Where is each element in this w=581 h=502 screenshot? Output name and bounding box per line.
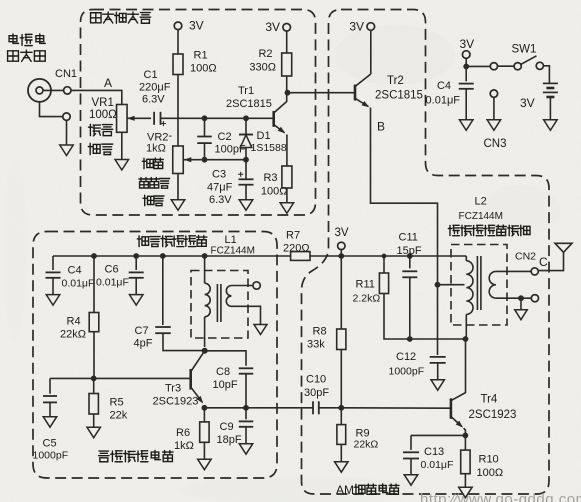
svg-text:6.3V: 6.3V (209, 194, 232, 206)
wire tank bottom rail (410, 338, 466, 340)
svg-text:SW1: SW1 (512, 44, 537, 56)
label VR2 1k (146, 130, 173, 155)
capacitor C13 (403, 435, 465, 474)
ground R9 (335, 462, 349, 473)
node switch feed junction (463, 64, 469, 70)
potentiometer VR1 (117, 105, 151, 133)
resistor R6 (200, 408, 209, 459)
svg-text:C9: C9 (220, 421, 234, 433)
svg-text:1kΩ: 1kΩ (146, 143, 166, 155)
label C1 220uF 6.3V (139, 69, 171, 106)
node CN1 pin circle (55, 68, 77, 94)
label 高频振荡电路 (99, 450, 174, 462)
ground VR1 (115, 132, 129, 170)
capacitor C10 (313, 401, 341, 414)
svg-text:R3: R3 (263, 172, 277, 184)
node B label (377, 120, 385, 134)
svg-text:-: - (169, 130, 173, 142)
svg-text:Tr4: Tr4 (481, 394, 498, 406)
base rail wire (50, 377, 190, 379)
label C12 1000pF (389, 351, 425, 378)
svg-text:220μF: 220μF (139, 82, 171, 94)
svg-text:C: C (539, 255, 548, 269)
svg-text:0.01μF: 0.01μF (426, 95, 461, 107)
svg-text:100Ω: 100Ω (261, 186, 288, 198)
label L2 FCZ144M (459, 196, 503, 223)
label 与振荡频率同步 (448, 225, 530, 236)
resistor R7 (283, 230, 310, 261)
resistor R4 (89, 256, 99, 378)
svg-text:R6: R6 (176, 427, 190, 439)
node L1 secondary tap terminal (253, 282, 260, 289)
ground L2 secondary (515, 298, 528, 320)
label VR1 振幅调整 (88, 124, 112, 154)
label C2 100pF (215, 131, 246, 156)
svg-text:220Ω: 220Ω (283, 243, 310, 255)
node L2 secondary ground junction (518, 295, 524, 301)
label R9 22k (354, 428, 379, 451)
capacitor C1 (coupling, polarized) (154, 112, 166, 126)
svg-text:18pF: 18pF (217, 434, 242, 446)
label C6 0.01uF (96, 264, 129, 289)
node Tr3 emitter (202, 405, 208, 411)
antenna (539, 243, 573, 270)
svg-text:0.01μF: 0.01μF (421, 459, 454, 471)
resistor R9 (337, 408, 346, 462)
svg-text:2SC1815: 2SC1815 (375, 90, 423, 102)
connector CN3 (484, 90, 507, 150)
inductor L2 primary winding (466, 256, 473, 339)
ground VR2 (171, 174, 185, 211)
svg-text:330Ω: 330Ω (249, 62, 276, 74)
node R4 top (91, 253, 97, 259)
wire Tr2 emitter down to tank tap and C12 (371, 108, 438, 356)
svg-text:100Ω: 100Ω (89, 109, 117, 121)
capacitor C9 (239, 408, 254, 444)
svg-text:A: A (104, 76, 112, 90)
resistor R10 (461, 435, 470, 487)
dashed box modulator block (Tr2 + AM section) (302, 10, 550, 495)
svg-text:2.2kΩ: 2.2kΩ (353, 293, 381, 305)
connector CN1 RCA jack (28, 79, 63, 117)
svg-text:FCZ144M: FCZ144M (459, 211, 503, 222)
node tank bottom / Tr4 collector (463, 336, 469, 342)
dashed box L1 (191, 271, 248, 339)
svg-text:C4: C4 (437, 80, 451, 92)
svg-text:R1: R1 (194, 50, 208, 62)
capacitor C4 oscillator (46, 256, 61, 295)
node L1/C7/C8/collector junction (202, 348, 208, 354)
label AM调制电路 (336, 483, 399, 497)
svg-text:C5: C5 (43, 438, 57, 450)
capacitor C3 (polarized) (238, 160, 253, 200)
svg-text:33k: 33k (307, 339, 325, 351)
wire Tr1 emitter to R3 (286, 135, 288, 167)
svg-text:2SC1923: 2SC1923 (469, 409, 517, 421)
svg-text:VR1: VR1 (92, 97, 114, 109)
label C3 47uF 6.3V (207, 169, 233, 207)
svg-text:100Ω: 100Ω (477, 467, 504, 479)
node D1 top junction (243, 115, 249, 121)
svg-text:2SC1815: 2SC1815 (226, 98, 272, 110)
ground input sleeve (60, 120, 74, 155)
svg-text:22kΩ: 22kΩ (60, 329, 86, 341)
label R8 33k (307, 326, 327, 351)
ground R6 (198, 459, 212, 470)
inductor L1 secondary winding (226, 286, 260, 325)
node C11 top (407, 253, 413, 259)
svg-text:C8: C8 (216, 366, 230, 378)
emitter rail wire (204, 407, 313, 409)
svg-text:C12: C12 (396, 351, 416, 363)
svg-text:15pF: 15pF (397, 245, 422, 257)
capacitor C2 (197, 118, 212, 159)
inductor L1 primary winding (205, 256, 211, 347)
node C10/R8/R9/base junction (338, 405, 344, 411)
supply 3V terminal for R2 (265, 20, 290, 53)
svg-text:1kΩ: 1kΩ (174, 440, 194, 452)
svg-text:C13: C13 (424, 446, 444, 458)
ground C3 (239, 200, 253, 211)
svg-text:1S1588: 1S1588 (251, 142, 287, 154)
node R4/R5 junction (91, 376, 97, 382)
svg-text:http:∕∕www.qo-gddq.com: http:∕∕www.qo-gddq.com (420, 491, 581, 502)
svg-text:2SC1923: 2SC1923 (153, 396, 199, 408)
node C6 top (133, 253, 139, 259)
capacitor C7 (155, 256, 202, 351)
svg-text:R8: R8 (313, 326, 327, 338)
label R11 2.2k (353, 279, 381, 305)
dashed box HF oscillator block (33, 232, 277, 479)
wire RCA center to CN1 (43, 89, 64, 91)
svg-text:1000pF: 1000pF (33, 450, 69, 462)
label R5 22k (110, 397, 128, 422)
wire oscillator supply rail (53, 255, 341, 257)
resistor R5 (89, 378, 98, 427)
transistor Tr1 2SC1815 (226, 85, 287, 133)
svg-text:22k: 22k (110, 410, 128, 422)
supply 3V terminal for R1 (174, 19, 203, 55)
svg-text:C3: C3 (212, 169, 226, 181)
transformer L2 core (477, 256, 481, 310)
node 3V rail junction (338, 253, 344, 259)
label L1 FCZ144M (211, 234, 255, 257)
svg-text:B: B (377, 120, 385, 134)
svg-text:1000pF: 1000pF (389, 366, 425, 378)
wire SW1 to battery (543, 66, 549, 84)
wire CN1 to node A and down to VR1 (71, 76, 122, 105)
label 图像放大级 (91, 12, 151, 23)
dashed box image-amplifier stage block (81, 10, 316, 216)
svg-text:R5: R5 (110, 397, 124, 409)
svg-text:30pF: 30pF (304, 387, 329, 399)
capacitor C5 (43, 378, 57, 416)
resistor R3 (261, 166, 292, 198)
label C13 0.01uF (421, 446, 454, 471)
svg-text:L1: L1 (225, 234, 237, 246)
ground C5 (43, 417, 57, 428)
svg-text:D1: D1 (257, 130, 271, 142)
label D1 1S1588 (251, 130, 287, 154)
inductor L2 secondary winding (489, 271, 531, 298)
resistor R1 (173, 50, 217, 75)
dashed box L2 (451, 245, 507, 326)
ground C6 (129, 295, 143, 306)
label R4 22k (60, 316, 86, 341)
svg-text:R2: R2 (258, 48, 272, 60)
svg-text:10pF: 10pF (213, 379, 238, 391)
wire tank top rail (341, 255, 466, 257)
ground C4 osc (46, 295, 60, 306)
transistor Tr4 2SC1923 (451, 339, 517, 428)
label C7 4pF (134, 325, 153, 350)
resistor R8 (337, 256, 346, 408)
connector CN1 sleeve circle (63, 113, 70, 120)
label C4 0.01uF osc (62, 265, 95, 290)
ground C4 (459, 120, 473, 131)
label 调整振荡频率 (137, 236, 207, 247)
ground CN3 (487, 120, 501, 131)
battery 3V (520, 83, 558, 119)
ground R10 (459, 487, 473, 498)
svg-text:FCZ144M: FCZ144M (211, 246, 255, 257)
svg-text:R7: R7 (286, 230, 300, 242)
connector CN2 hot (515, 251, 548, 276)
svg-text:CN3: CN3 (484, 138, 507, 150)
svg-text:Tr2: Tr2 (387, 75, 404, 87)
watermark url text (420, 491, 581, 502)
svg-text:C11: C11 (399, 232, 418, 244)
wire bias node (205, 159, 247, 161)
svg-text:R11: R11 (356, 279, 375, 291)
svg-text:3V: 3V (349, 20, 364, 34)
capacitor C12 (430, 357, 446, 380)
node Tr4 emitter (463, 428, 469, 438)
svg-text:L2: L2 (475, 196, 487, 208)
ground C13 (404, 475, 418, 486)
node L1 top (202, 253, 208, 259)
diode D1 1S1588 (239, 118, 253, 159)
label C4 0.01uF (426, 80, 461, 107)
ground R3 (280, 188, 294, 213)
supply 3V terminal mid (335, 227, 349, 256)
ground C9 (239, 444, 253, 455)
svg-text:AM: AM (336, 483, 354, 497)
svg-text:3V: 3V (520, 96, 535, 110)
svg-text:3V: 3V (189, 19, 204, 33)
svg-text:R4: R4 (67, 316, 81, 328)
label C11 15pF (397, 232, 422, 258)
capacitor C11 (402, 256, 417, 339)
node L2 primary tap (435, 282, 441, 288)
resistor R2 (249, 48, 291, 76)
node D1 bottom junction (243, 157, 249, 163)
svg-text:22kΩ: 22kΩ (354, 439, 379, 451)
ground R5 (87, 427, 101, 438)
svg-text:0.01μF: 0.01μF (62, 278, 95, 290)
ground battery (544, 120, 558, 131)
label C9 18pF (217, 421, 242, 446)
potentiometer VR2 (173, 146, 202, 174)
svg-text:4pF: 4pF (134, 338, 153, 350)
resistor R11 (379, 256, 409, 339)
svg-text:C7: C7 (135, 325, 149, 337)
wire Tr1 collector to Tr2 base (288, 92, 356, 94)
node C2 bottom junction (202, 157, 208, 163)
ground C12 (431, 380, 445, 391)
svg-text:Tr1: Tr1 (238, 85, 254, 97)
label R10 100ohm (477, 454, 504, 480)
svg-text:3V: 3V (265, 20, 280, 34)
svg-text:C2: C2 (218, 131, 232, 143)
svg-text:CN2: CN2 (515, 251, 536, 263)
svg-text:R10: R10 (479, 454, 499, 466)
label VR2 调制偏置点调整 (139, 158, 170, 206)
transformer L1 core (217, 284, 221, 322)
node Tr1 collector junction (285, 90, 291, 96)
supply 3V terminal for Tr2 (349, 20, 374, 75)
svg-text:C1: C1 (144, 69, 158, 81)
svg-text:47μF: 47μF (207, 182, 233, 194)
switch SW1 (490, 44, 543, 70)
wire R2 to collector node (286, 76, 288, 93)
label R6 1k (174, 427, 194, 452)
svg-text:6.3V: 6.3V (142, 94, 165, 106)
wire tap into L2 (438, 284, 465, 286)
label C5 1000pF (33, 438, 69, 462)
svg-text:3V: 3V (335, 227, 349, 239)
node R11 top (382, 254, 387, 259)
ground L1 secondary (254, 325, 267, 335)
label C8 10pF (213, 366, 238, 391)
wire C1 to Tr1 base (161, 117, 274, 119)
node C7 top (160, 253, 166, 259)
transistor Tr2 2SC1815 (355, 74, 423, 107)
label VR1 100ohm (89, 97, 117, 121)
capacitor C4 modulator supply (459, 66, 474, 119)
capacitor C8 (205, 351, 254, 408)
wire R1 to VR2 (177, 75, 179, 147)
connector CN2 gnd pin (531, 295, 538, 302)
svg-text:CN1: CN1 (55, 68, 77, 80)
svg-text:Tr3: Tr3 (165, 383, 181, 395)
svg-text:0.01μF: 0.01μF (96, 277, 129, 289)
wire C10 to Tr4 base (341, 407, 450, 409)
node C8/C9 bottom (243, 405, 249, 411)
video input label 视频信号输入 (8, 34, 46, 61)
svg-text:3V: 3V (460, 37, 475, 51)
node C11 bottom (407, 336, 413, 342)
label C10 30pF (304, 374, 329, 400)
svg-text:100Ω: 100Ω (190, 63, 217, 75)
supply 3V terminal switch section (460, 37, 475, 66)
svg-text:C6: C6 (105, 264, 119, 276)
transistor Tr3 2SC1923 (153, 351, 205, 408)
capacitor C6 (129, 256, 144, 295)
node C2 top junction (202, 115, 208, 121)
wire node to SW1 (466, 65, 490, 67)
svg-text:C10: C10 (306, 374, 326, 386)
svg-text:C4: C4 (68, 265, 82, 277)
